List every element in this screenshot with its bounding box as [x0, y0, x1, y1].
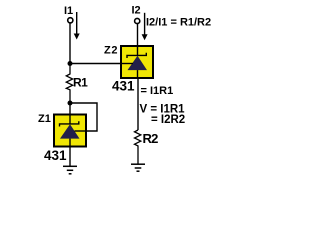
current arrow I1 [74, 12, 80, 40]
svg-text:431: 431 [112, 78, 135, 93]
wire Z1 to ground [69, 147, 71, 167]
svg-text:Z1: Z1 [38, 113, 51, 125]
wire feedback node B to Z1 ref pin [70, 103, 97, 131]
wire node A to Z2 ref pin [70, 63, 121, 65]
svg-text:= I2R2: = I2R2 [151, 114, 185, 126]
svg-text:R2: R2 [143, 131, 159, 146]
ground under R2 [131, 164, 145, 171]
node A junction [68, 61, 73, 66]
svg-text:= I1R1: = I1R1 [141, 85, 174, 97]
resistor R1 [66, 64, 72, 104]
terminal I1 [68, 18, 73, 23]
wire I1 to node A [69, 23, 71, 64]
svg-text:I2: I2 [132, 5, 141, 17]
svg-text:I1: I1 [64, 5, 73, 17]
terminal I2 [135, 18, 140, 23]
node B junction [68, 101, 73, 106]
resistor R2 [135, 130, 141, 164]
svg-text:431: 431 [44, 148, 67, 163]
wire Z2 to R2 [137, 78, 139, 130]
current arrow I2 [142, 13, 148, 41]
wire node B to Z1 cathode [69, 103, 71, 114]
svg-text:Z2: Z2 [104, 45, 118, 57]
svg-text:I2/I1 = R1/R2: I2/I1 = R1/R2 [146, 17, 211, 29]
shunt regulator Z2 (TL431) [121, 46, 153, 78]
svg-text:R1: R1 [73, 75, 88, 89]
shunt regulator Z1 (TL431) [54, 115, 87, 147]
ground under Z1 [63, 166, 77, 174]
wire I2 to Z2 [137, 24, 139, 47]
